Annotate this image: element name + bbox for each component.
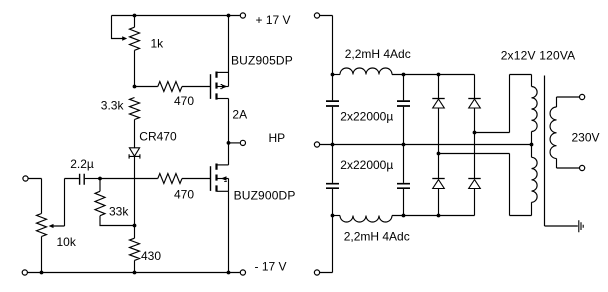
diode CR470 cathode bar [129, 154, 141, 158]
terminal ground/input return [22, 270, 27, 275]
svg-text:2,2mH 4Adc: 2,2mH 4Adc [345, 47, 411, 61]
terminal -17V [240, 270, 245, 275]
wire: 33k bottom to bias node [100, 216, 135, 226]
terminal PSU 0V [314, 142, 319, 147]
transistor Q1 source stub [217, 71, 229, 73]
wire: 10k pot to ground rail [41, 237, 43, 273]
terminal mains N [580, 165, 585, 170]
wire: Q2 bulk tie to source [228, 179, 230, 192]
diode D4 triangle [469, 180, 481, 189]
capacitor C3b plates (2x22000µ lower-right) [397, 184, 410, 189]
wire: top rail left segment [333, 74, 341, 76]
svg-text:430: 430 [141, 249, 161, 263]
transistor Q2 channel segments [215, 164, 217, 192]
transistor Q1 channel segments [215, 72, 217, 100]
wire: PSU + terminal to filter [319, 16, 332, 75]
wire: -17V bottom rail [27, 272, 240, 274]
svg-text:CR470: CR470 [139, 130, 177, 144]
diode D2 cathode bar [468, 98, 480, 100]
wire: C3b to bottom rail [403, 189, 405, 216]
wire: top rail to C2b [403, 75, 405, 101]
capacitor C2b plates (2x22000µ upper-right) [397, 101, 410, 106]
svg-text:470: 470 [174, 187, 194, 201]
svg-text:230V: 230V [572, 131, 600, 145]
wire: 1k pot wiper feedback [112, 16, 124, 39]
terminal +17V [240, 13, 245, 18]
diode D1 cathode bar [432, 98, 444, 100]
junction bottom rail / 10k [40, 271, 44, 275]
ground (earth symbol) [579, 220, 583, 232]
terminal input [23, 176, 28, 181]
svg-text:1k: 1k [151, 37, 165, 51]
junction bottom rail / D3 [437, 214, 441, 218]
node: upper gate node [133, 85, 137, 89]
transistor Q2 bulk stub [217, 178, 229, 180]
wire: bias node to 430 [134, 226, 136, 239]
node: bias node CR470/33k/430 [133, 224, 137, 228]
wire: resistor 470a to Q1 gate [182, 86, 211, 88]
wire: input to 10k pot [28, 179, 42, 214]
diode D2 triangle [469, 99, 481, 108]
svg-text:3.3k: 3.3k [101, 98, 125, 112]
wire: resistor 470b to Q2 gate [182, 178, 211, 180]
diode D1 triangle [433, 99, 445, 108]
diode CR470 triangle [129, 148, 139, 156]
svg-text:BUZ900DP: BUZ900DP [234, 189, 296, 203]
terminal HP output [240, 140, 245, 145]
wire: C3a to bottom rail [332, 189, 334, 216]
svg-text:2x12V 120VA: 2x12V 120VA [501, 48, 576, 62]
transistor Q1 drain stub [217, 98, 229, 100]
wire: core to earth [545, 225, 578, 227]
wire: 10k wiper to coupling cap [53, 179, 79, 227]
junction bottom rail / C3 column [402, 214, 406, 218]
transistor Q2 source stub [217, 190, 229, 192]
wire: bottom rail right of L2 [392, 215, 475, 217]
potentiometer P2 10k body [37, 214, 47, 237]
svg-text:- 17 V: - 17 V [255, 260, 287, 274]
wire: D3 anode to bottom rail [438, 189, 440, 216]
transistor Q1 bulk arrow (P-channel) [222, 84, 228, 88]
wire: 0V middle rail [319, 144, 531, 146]
terminal mains L [580, 94, 585, 99]
transformer T1 primary winding 230V [550, 107, 556, 159]
transistor Q2 bulk arrow (N-channel) [221, 176, 227, 180]
svg-text:2x22000µ: 2x22000µ [340, 110, 393, 124]
wire: primary bottom to mains N [557, 159, 580, 169]
transformer T1 secondary winding upper [532, 87, 538, 132]
resistor 430 body [130, 238, 140, 260]
wire: 3.3k to diode CR470 [134, 120, 136, 148]
transistor Q2 BUZ900DP gate bar [210, 166, 212, 191]
resistor 470b body [158, 174, 182, 184]
junction top rail / D1 [437, 73, 441, 77]
wire: +17V rail to Q1 source/bulk [228, 16, 230, 87]
diode D3 triangle [433, 180, 445, 189]
svg-text:+ 17 V: + 17 V [256, 13, 291, 27]
svg-text:HP: HP [269, 131, 286, 145]
wire: top rail to 1k pot [134, 16, 136, 28]
potentiometer P1 wiper arrow [122, 36, 127, 40]
wire: D1 anode down [438, 108, 440, 154]
junction mid rail / right column [402, 143, 406, 147]
diode D3 cathode bar [432, 178, 444, 180]
wire: C2a to mid rail [332, 107, 334, 145]
junction top rail / 1k pot [133, 14, 137, 18]
transistor Q1 BUZ905DP gate bar [210, 74, 212, 99]
wire: D4 anode to bottom rail [474, 189, 476, 216]
wire: gate node down to 33k [99, 179, 101, 192]
wire: top rail to D1 cathode [438, 75, 440, 99]
wire: lower gate line to resistor 470b [100, 178, 158, 180]
junction bottom rail / 430 [133, 271, 137, 275]
wire: mains L to primary top [557, 97, 580, 107]
node: lower gate node [98, 177, 102, 181]
wire: CR470 cathode down to bias node [134, 156, 136, 225]
wire: output node to Q2 drain [228, 143, 230, 165]
transistor Q2 drain stub [217, 164, 229, 166]
wire: secondary upper to center tap [531, 132, 533, 145]
wire: +17V top rail [112, 15, 240, 17]
wire: Q1 drain to output node [228, 99, 230, 143]
wire: top rail to C2a [332, 75, 334, 101]
wire: bottom rail left segment [333, 215, 341, 217]
wire: secondary bottom link to D1 [439, 154, 532, 216]
junction bottom rail / Q2 source [227, 271, 231, 275]
junction bottom rail / left column [331, 214, 335, 218]
diode D4 cathode bar [468, 178, 480, 180]
terminal PSU +17V out [314, 13, 319, 18]
inductor L2 2,2mH body [340, 216, 392, 223]
svg-text:2A: 2A [232, 107, 247, 121]
transformer T1 core [544, 76, 546, 227]
inductor L1 2,2mH body [340, 68, 392, 74]
transformer T1 secondary winding lower [532, 157, 538, 202]
wire: output node to HP terminal [229, 142, 240, 144]
junction top rail / C2 column [402, 73, 406, 77]
wire: 430 to -17V rail [134, 260, 136, 272]
junction D1 anode / winding link [437, 152, 441, 156]
junction top rail / Q1 source [227, 14, 231, 18]
svg-text:470: 470 [174, 94, 194, 108]
wire: gate node to resistor 470a [135, 86, 158, 88]
wire: D2 anode to D4 cathode [474, 133, 476, 179]
svg-text:2.2µ: 2.2µ [70, 157, 94, 171]
svg-text:33k: 33k [109, 204, 129, 218]
svg-text:10k: 10k [57, 235, 77, 249]
wire: mid rail to C3a [332, 145, 334, 183]
potentiometer P2 wiper arrow [49, 224, 54, 228]
wire: left column to -17V terminal [319, 216, 332, 273]
capacitor C2a plates (2x22000µ upper-left) [326, 101, 339, 106]
wire: D2 link to secondary top [475, 75, 532, 133]
transistor Q1 bulk stub [217, 86, 229, 88]
wire: cap 2.2µ to lower gate node [85, 178, 100, 180]
wire: 1k pot to gate node [134, 50, 136, 86]
resistor 3.3k body [130, 98, 140, 120]
wire: mid rail to C3b [403, 145, 405, 183]
wire: D2 anode down [474, 108, 476, 133]
svg-text:2,2mH 4Adc: 2,2mH 4Adc [344, 230, 410, 244]
resistor 33k body [95, 191, 105, 215]
svg-text:2x22000µ: 2x22000µ [340, 158, 393, 172]
wire: top rail right of L1 [392, 74, 475, 76]
wire: D1 anode to D3 cathode [438, 154, 440, 179]
junction top rail / left column [331, 73, 335, 77]
junction mid rail / left column [331, 143, 335, 147]
svg-text:BUZ905DP: BUZ905DP [231, 54, 293, 68]
junction D2 anode / winding link [473, 131, 477, 135]
wire: Q2 source to -17V rail [228, 191, 230, 272]
node: transformer center tap [530, 143, 534, 147]
resistor 470a body [158, 82, 182, 92]
wire: top rail corner to D2 cathode [474, 75, 476, 99]
wire: center tap to secondary lower [531, 145, 533, 158]
terminal PSU -17V out [314, 270, 319, 275]
node: HP output junction [227, 141, 231, 145]
potentiometer P1 1k body [130, 27, 140, 50]
capacitor C1 2.2µ plates [80, 174, 85, 185]
capacitor C3a plates (2x22000µ lower-left) [326, 184, 339, 189]
wire: C2b to mid rail [403, 107, 405, 145]
